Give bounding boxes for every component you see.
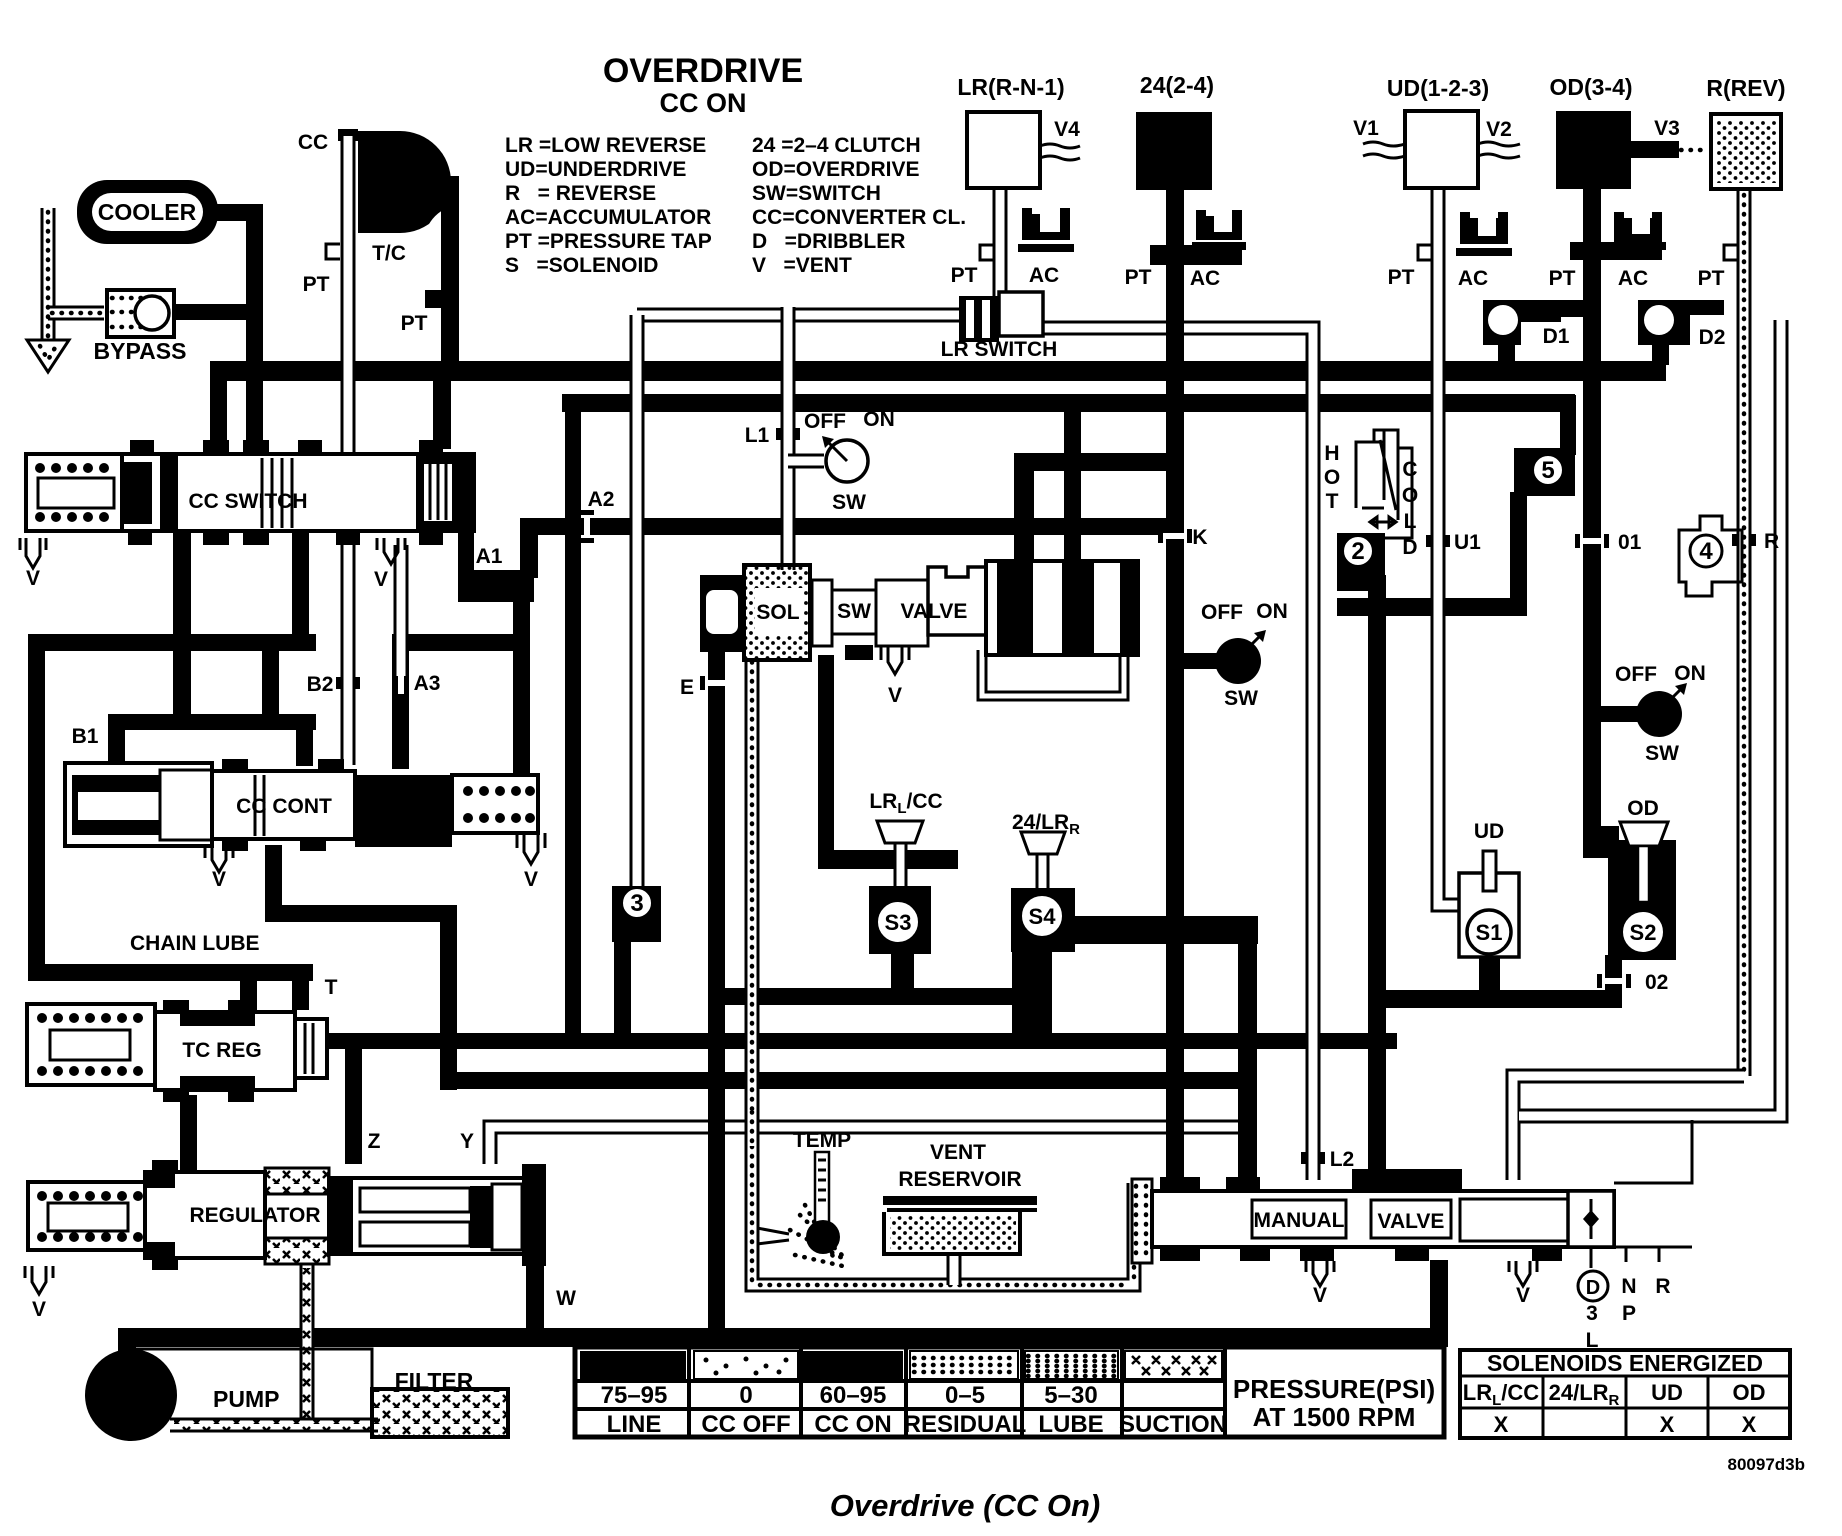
svg-text:SW: SW [837, 600, 871, 623]
wire OD PT-AC crossbar [1570, 242, 1662, 260]
wire right thin link channel to manual valve [1513, 1076, 1744, 1180]
wire lower bus y643 left part [28, 634, 316, 651]
svg-text:P: P [1622, 1302, 1636, 1325]
svg-text:V: V [26, 567, 40, 590]
node 4 circle with bracket [1679, 516, 1742, 596]
swatch CC OFF dotted [694, 1351, 798, 1379]
wire B1 right riser [262, 642, 279, 722]
wire reservoir drain stipple [947, 1250, 962, 1285]
svg-text:RESERVOIR: RESERVOIR [898, 1168, 1021, 1191]
wire OD-line vertical [1583, 188, 1601, 853]
wire CC CONT bottom drain elbow [265, 845, 282, 920]
valve REGULATOR [25, 1160, 546, 1294]
svg-text:V4: V4 [1054, 118, 1080, 141]
pressure legend table [575, 1347, 1444, 1438]
solenoids energized table [1460, 1350, 1790, 1438]
accumulator AC for LR [1018, 208, 1074, 252]
svg-text:OFF: OFF [1201, 601, 1243, 624]
valve assembly SOL SW VALVE [700, 561, 1138, 674]
svg-text:D =DRIBBLER: D =DRIBBLER [752, 230, 905, 253]
wire right outer thin channel [1519, 320, 1781, 1116]
svg-text:OVERDRIVE: OVERDRIVE [603, 52, 803, 90]
svg-text:AC=ACCUMULATOR: AC=ACCUMULATOR [505, 206, 711, 229]
svg-text:ON: ON [863, 408, 895, 431]
svg-text:PT: PT [401, 312, 428, 335]
node K tick [1162, 533, 1188, 539]
node L1 tick [776, 428, 781, 440]
svg-text:5: 5 [1541, 457, 1554, 484]
svg-text:S =SOLENOID: S =SOLENOID [505, 254, 658, 277]
svg-text:K: K [1192, 526, 1207, 549]
manual valve right thin outputs [1591, 1120, 1692, 1268]
clutch OD(3-4) [1556, 111, 1631, 189]
svg-text:CC SWITCH: CC SWITCH [189, 490, 308, 513]
wire suction crosshatch channel pump to filter [170, 1418, 378, 1433]
node A1 junction blob [458, 570, 534, 602]
swatch LUBE fine dots [1025, 1351, 1118, 1379]
pressure tap PT tick on CC channel [326, 244, 340, 259]
svg-text:REGULATOR: REGULATOR [189, 1204, 320, 1227]
node 2 circle [1337, 533, 1385, 591]
pressure tap PT on T/C line [425, 290, 443, 308]
wire bus3 y1085 [440, 1072, 1250, 1089]
svg-text:PT: PT [951, 264, 978, 287]
wire 24 PT-AC crossbar [1150, 245, 1242, 265]
svg-text:VENT: VENT [930, 1141, 986, 1164]
svg-text:TEMP: TEMP [793, 1129, 851, 1152]
svg-text:CC ON: CC ON [814, 1411, 891, 1438]
wire 3 channel vertical [630, 315, 645, 892]
valve TC REG [27, 1000, 327, 1102]
svg-text:CC ON: CC ON [660, 88, 747, 118]
svg-text:V2: V2 [1486, 118, 1512, 141]
selector D circle [1578, 1271, 1608, 1301]
dribbler D2 [1638, 300, 1690, 345]
vent V4 squiggle [1040, 144, 1080, 160]
svg-text:2: 2 [1351, 538, 1364, 565]
svg-text:CC: CC [298, 131, 328, 154]
svg-text:V: V [524, 868, 538, 891]
wire 24-line vertical [1166, 188, 1184, 1180]
wire LR SWITCH right channel to L2 drop [1042, 328, 1313, 1180]
pump PUMP [85, 1349, 177, 1441]
node L2 tick [1301, 1152, 1306, 1164]
clutch UD(1-2-3) [1405, 111, 1478, 188]
wire chain lube stub to TC REG left port [240, 964, 257, 1010]
wire pump bus y1336 [118, 1328, 1448, 1347]
svg-text:LINE: LINE [607, 1411, 662, 1438]
wire chain lube stub to TC REG T port [292, 964, 309, 1010]
svg-text:S2: S2 [1630, 920, 1657, 945]
svg-text:R = REVERSE: R = REVERSE [505, 182, 656, 205]
swatch LINE black [580, 1351, 686, 1379]
svg-text:PUMP: PUMP [213, 1386, 279, 1412]
svg-text:R(REV): R(REV) [1706, 75, 1785, 101]
svg-text:AC: AC [1618, 267, 1648, 290]
vent V below CC CONT left [205, 846, 233, 872]
svg-text:V: V [1313, 1284, 1327, 1307]
wire L1 channel [781, 307, 796, 570]
node B2 tick [336, 677, 341, 689]
svg-text:AC: AC [1190, 267, 1220, 290]
cooler COOLER [77, 180, 218, 244]
svg-text:Y: Y [460, 1130, 474, 1153]
svg-text:E: E [680, 676, 694, 699]
wire CC SWITCH right drop x300 [292, 531, 309, 641]
svg-text:UD=UNDERDRIVE: UD=UNDERDRIVE [505, 158, 686, 181]
node A2 tick [584, 514, 590, 539]
vent V below regulator [25, 1266, 53, 1294]
wire S4-manual drop vertical [1238, 916, 1257, 1178]
svg-text:S3: S3 [885, 910, 912, 935]
wire R dotted channel vertical [1737, 189, 1752, 1076]
bypass arrowhead [27, 340, 69, 372]
svg-text:R: R [1764, 530, 1779, 553]
vent V1 squiggle [1363, 142, 1405, 158]
svg-text:B2: B2 [307, 673, 334, 696]
svg-text:U1: U1 [1454, 531, 1481, 554]
svg-text:PT: PT [303, 273, 330, 296]
svg-text:Overdrive (CC On): Overdrive (CC On) [830, 1488, 1100, 1523]
svg-text:0: 0 [739, 1382, 752, 1409]
svg-text:X: X [1742, 1412, 1757, 1437]
wire S3 stem to busA [891, 950, 914, 995]
wire L1 to SW1 stub [788, 454, 824, 469]
wire S4 right bar to manual drop [1068, 916, 1258, 944]
wire 2-5 bottom link y607 [1337, 598, 1527, 616]
pressure tap PT tick R right [1724, 245, 1738, 260]
switch SW3 filled [1636, 691, 1682, 737]
svg-text:SW: SW [1645, 742, 1679, 765]
svg-text:3: 3 [1586, 1302, 1598, 1325]
wire suction crosshatch channel regulator down [300, 1264, 315, 1425]
wire CC SWITCH left drop x182 [173, 531, 191, 723]
svg-text:N: N [1621, 1275, 1636, 1298]
svg-text:SOL: SOL [756, 601, 799, 624]
bypass ball valve BYPASS [107, 290, 174, 337]
wire 3-square drain [614, 938, 631, 1041]
filter FILTER [372, 1389, 508, 1437]
node A3 tick [398, 674, 404, 694]
wire S3 funnel crossbar [818, 850, 958, 869]
wire bypass ball to cooler line [172, 304, 254, 320]
valve MANUAL VALVE [1132, 1120, 1692, 1286]
svg-text:T: T [325, 976, 338, 999]
svg-text:PT: PT [1698, 267, 1725, 290]
wire TC REG drain to regulator [180, 1095, 197, 1170]
wire S4 stem elbow to busA [1012, 948, 1052, 1045]
svg-text:3: 3 [630, 890, 643, 917]
svg-text:D: D [1586, 1277, 1600, 1299]
svg-text:VALVE: VALVE [901, 600, 968, 623]
svg-text:PT =PRESSURE TAP: PT =PRESSURE TAP [505, 230, 712, 253]
svg-text:CC CONT: CC CONT [236, 795, 332, 818]
wire D2 bar right [1686, 300, 1724, 315]
swatch SUCTION crosshatch [1125, 1351, 1222, 1379]
wire S2 bottom to 02 bus corner [1605, 955, 1622, 1008]
svg-text:02: 02 [1645, 971, 1668, 994]
accumulator AC for UD [1456, 212, 1512, 256]
wire lower A1 horizontal y643 right part [392, 634, 530, 651]
node 3 circle [612, 886, 661, 942]
wire T/C top bridge [400, 176, 450, 192]
svg-text:V: V [374, 568, 388, 591]
swatch CC ON black [802, 1351, 903, 1379]
svg-text:60–95: 60–95 [820, 1382, 887, 1409]
wire SOL stipple channel down to reservoir and manual valve [752, 658, 1134, 1285]
svg-text:D: D [1402, 536, 1417, 559]
svg-text:0–5: 0–5 [945, 1382, 985, 1409]
wire main bus1 horizontal y370 [210, 361, 1666, 381]
svg-text:75–95: 75–95 [601, 1382, 668, 1409]
wire left vertical x36 down to chain lube [28, 634, 45, 981]
svg-text:L1: L1 [745, 424, 770, 447]
svg-text:A2: A2 [588, 488, 615, 511]
svg-text:CC OFF: CC OFF [701, 1411, 790, 1438]
svg-text:UD: UD [1474, 820, 1504, 843]
svg-text:V: V [212, 868, 226, 891]
node 01 tick [1579, 538, 1605, 544]
svg-text:OFF: OFF [804, 410, 846, 433]
svg-text:T/C: T/C [372, 242, 406, 265]
svg-text:OD(3-4): OD(3-4) [1549, 74, 1632, 100]
svg-text:LR =LOW REVERSE: LR =LOW REVERSE [505, 134, 706, 157]
wire pump riser [118, 1328, 136, 1358]
wire K bus y462 [1014, 453, 1174, 471]
wire K drop to SOL valve [1014, 453, 1034, 568]
svg-text:SUCTION: SUCTION [1119, 1411, 1227, 1438]
svg-text:RESIDUAL: RESIDUAL [904, 1411, 1027, 1438]
svg-text:V: V [32, 1298, 46, 1321]
wire V3 black link from OD box [1629, 141, 1679, 158]
node 02 tick [1601, 978, 1627, 984]
svg-text:T: T [1326, 490, 1339, 513]
wire cooler down to bus1 [246, 204, 263, 454]
svg-text:24(2-4): 24(2-4) [1140, 72, 1214, 98]
wire SW3 stem from OD line [1594, 706, 1642, 722]
svg-text:OFF: OFF [1615, 663, 1657, 686]
clutch 24(2-4) [1136, 112, 1212, 190]
wire bus1 left elbow down to CC SWITCH [210, 362, 227, 454]
wire bus2 left elbow down x573 long vertical to busB [565, 395, 581, 1046]
valve CC SWITCH [20, 440, 474, 568]
svg-text:PT: PT [1549, 267, 1576, 290]
wire bypass stipple arrow channel [41, 208, 56, 340]
wire B1 riser to valve [108, 714, 125, 764]
wire D2 stem to bus1 [1652, 340, 1669, 365]
vent V below manual valve right [1509, 1261, 1537, 1286]
accumulator AC for 24 [1192, 210, 1246, 250]
wire Y thin channel [490, 1127, 1240, 1164]
svg-text:AC: AC [1029, 264, 1059, 287]
crossing patches: thick lines over channels [1166, 300, 1184, 336]
svg-text:L2: L2 [1330, 1148, 1355, 1171]
switch SW2 filled [1215, 638, 1261, 684]
svg-text:ON: ON [1674, 662, 1706, 685]
node R tick [1732, 534, 1737, 546]
svg-text:AC: AC [1458, 267, 1488, 290]
wire busA E to S3 S4 y996 [708, 988, 1048, 1005]
svg-text:O: O [1402, 484, 1418, 507]
svg-text:BYPASS: BYPASS [94, 338, 187, 364]
svg-text:80097d3b: 80097d3b [1728, 1455, 1806, 1474]
wire W port regulator to pump bus [526, 1264, 544, 1339]
svg-text:R: R [1655, 1275, 1670, 1298]
svg-text:LRL/CC: LRL/CC [1463, 1380, 1540, 1409]
reservoir VENT RESERVOIR [883, 1196, 1037, 1205]
vent V below manual valve left [1306, 1261, 1334, 1286]
svg-text:FILTER: FILTER [395, 1368, 474, 1394]
wire LR clutch down channel [993, 186, 1008, 300]
wire S1 stem down to 02 bus [1479, 955, 1500, 995]
torque converter T/C half disc [358, 131, 451, 233]
wire D1 bar to OD line [1530, 300, 1590, 317]
svg-text:Z: Z [368, 1130, 381, 1153]
thermometer TEMP [815, 1152, 829, 1226]
svg-text:A1: A1 [476, 545, 503, 568]
svg-text:5–30: 5–30 [1044, 1382, 1097, 1409]
svg-text:OD=OVERDRIVE: OD=OVERDRIVE [752, 158, 919, 181]
wire SOL valve feedback thin loop [978, 650, 1128, 700]
vent V2 squiggle [1478, 142, 1520, 158]
svg-text:VALVE: VALVE [1378, 1210, 1445, 1233]
svg-text:TC REG: TC REG [182, 1039, 261, 1062]
dribbler D1 [1483, 300, 1561, 345]
solenoid S4 24/LRR [1021, 832, 1065, 854]
pressure tap PT tick UD [1418, 245, 1432, 260]
svg-text:L: L [1404, 510, 1417, 533]
svg-text:SOLENOIDS ENERGIZED: SOLENOIDS ENERGIZED [1487, 1350, 1763, 1376]
svg-text:PT: PT [1125, 266, 1152, 289]
node U1 tick [1426, 535, 1431, 547]
svg-text:OD: OD [1627, 797, 1659, 820]
svg-text:CC=CONVERTER CL.: CC=CONVERTER CL. [752, 206, 966, 229]
wire 5-square bottom riser [1510, 492, 1527, 616]
svg-text:X: X [1494, 1412, 1509, 1437]
wire bus2 right elbow into 5-square [1560, 395, 1576, 455]
svg-text:LR SWITCH: LR SWITCH [941, 338, 1058, 361]
svg-text:V =VENT: V =VENT [752, 254, 852, 277]
node CC cap [338, 129, 358, 141]
clutch LR(R-N-1) [967, 112, 1040, 188]
swatch RESIDUAL dots [910, 1351, 1018, 1379]
svg-text:AT 1500 RPM: AT 1500 RPM [1253, 1402, 1416, 1432]
svg-text:V: V [1516, 1284, 1530, 1307]
svg-text:01: 01 [1618, 531, 1642, 554]
svg-text:SW: SW [1224, 687, 1258, 710]
svg-text:S4: S4 [1029, 904, 1057, 929]
svg-text:UD: UD [1651, 1380, 1683, 1405]
svg-text:O: O [1324, 466, 1340, 489]
svg-text:A3: A3 [414, 672, 441, 695]
wire T/C right vertical down to bus1 [441, 176, 459, 368]
svg-text:D1: D1 [1543, 325, 1570, 348]
svg-text:OD: OD [1733, 1380, 1766, 1405]
wire E vertical [708, 640, 725, 1336]
svg-text:LUBE: LUBE [1038, 1411, 1103, 1438]
vent V below CC SWITCH [377, 538, 405, 564]
svg-text:H: H [1324, 442, 1339, 465]
thermal valve HOT COLD [1356, 430, 1412, 538]
accumulator AC for OD [1610, 212, 1666, 250]
svg-text:V1: V1 [1353, 117, 1379, 140]
node E tick [704, 680, 729, 686]
wire A3 vertical to CC CONT [392, 634, 409, 769]
pressure tap PT tick LR [980, 245, 994, 260]
wire D1 stem to bus1 [1498, 340, 1515, 365]
svg-text:V3: V3 [1654, 117, 1680, 140]
svg-text:24 =2–4 CLUTCH: 24 =2–4 CLUTCH [752, 134, 921, 157]
wire A1 vertical down into CC CONT right [513, 578, 530, 778]
svg-text:V: V [888, 684, 902, 707]
solenoid S3 funnel LRL/CC [877, 821, 923, 843]
svg-text:UD(1-2-3): UD(1-2-3) [1387, 75, 1489, 101]
wire 2-square drop vertical x1380 [1368, 575, 1386, 1178]
solenoid S1 UD [1459, 873, 1519, 957]
svg-text:ON: ON [1256, 600, 1288, 623]
svg-text:4: 4 [1699, 538, 1713, 565]
wire cooler output horizontal [214, 204, 262, 221]
wire CC / B2 open channel [341, 136, 356, 765]
svg-text:PT: PT [1388, 266, 1415, 289]
wire A2 horizontal y527 [527, 518, 1178, 535]
svg-text:MANUAL: MANUAL [1254, 1209, 1345, 1232]
svg-text:SW: SW [832, 491, 866, 514]
vent V below CC CONT right [517, 833, 545, 864]
wire Z stub down [345, 1033, 362, 1164]
switch LR SWITCH barrels [959, 296, 999, 342]
svg-text:COOLER: COOLER [98, 199, 197, 225]
wire UD clutch U1 channel [1438, 186, 1462, 905]
svg-text:C: C [1402, 458, 1417, 481]
svg-text:D2: D2 [1699, 326, 1726, 349]
wire B1 horizontal y722 [108, 714, 316, 730]
svg-text:SW=SWITCH: SW=SWITCH [752, 182, 881, 205]
svg-text:CHAIN LUBE: CHAIN LUBE [130, 932, 260, 955]
wire A2-A1 elbow down [520, 518, 538, 578]
svg-text:B1: B1 [72, 725, 99, 748]
vent V left of CC SWITCH [20, 538, 46, 568]
svg-text:X: X [1660, 1412, 1675, 1437]
node 5 circle [1514, 448, 1575, 496]
wire busB y1041 [327, 1033, 1397, 1049]
wire SW drop below SOL valve [818, 655, 834, 860]
valve CC CONT [65, 759, 545, 872]
svg-text:S1: S1 [1476, 920, 1503, 945]
svg-text:W: W [556, 1287, 576, 1310]
wire 02 bus y999 [1368, 990, 1622, 1008]
switch SW1 circle with arrow [826, 440, 868, 482]
wire chain lube bus y976 [28, 964, 313, 981]
wire LR SWITCH left channel to 3-channel [637, 308, 961, 323]
wire A3 thin channel below CC SWITCH [394, 545, 409, 676]
wire manual valve riser from pump bus [1430, 1260, 1448, 1340]
svg-text:LR(R-N-1): LR(R-N-1) [957, 74, 1064, 100]
wire SW2 stem from 24 line [1182, 653, 1220, 669]
wire bus2 horizontal y403 [562, 394, 1575, 412]
solenoid S2 OD [1608, 840, 1676, 960]
svg-text:PRESSURE(PSI): PRESSURE(PSI) [1233, 1374, 1435, 1404]
svg-text:LRL/CC: LRL/CC [869, 790, 942, 817]
table grid [575, 1347, 1225, 1437]
vent V below VALVE [881, 647, 909, 674]
clutch R(REV) stippled [1711, 114, 1781, 189]
